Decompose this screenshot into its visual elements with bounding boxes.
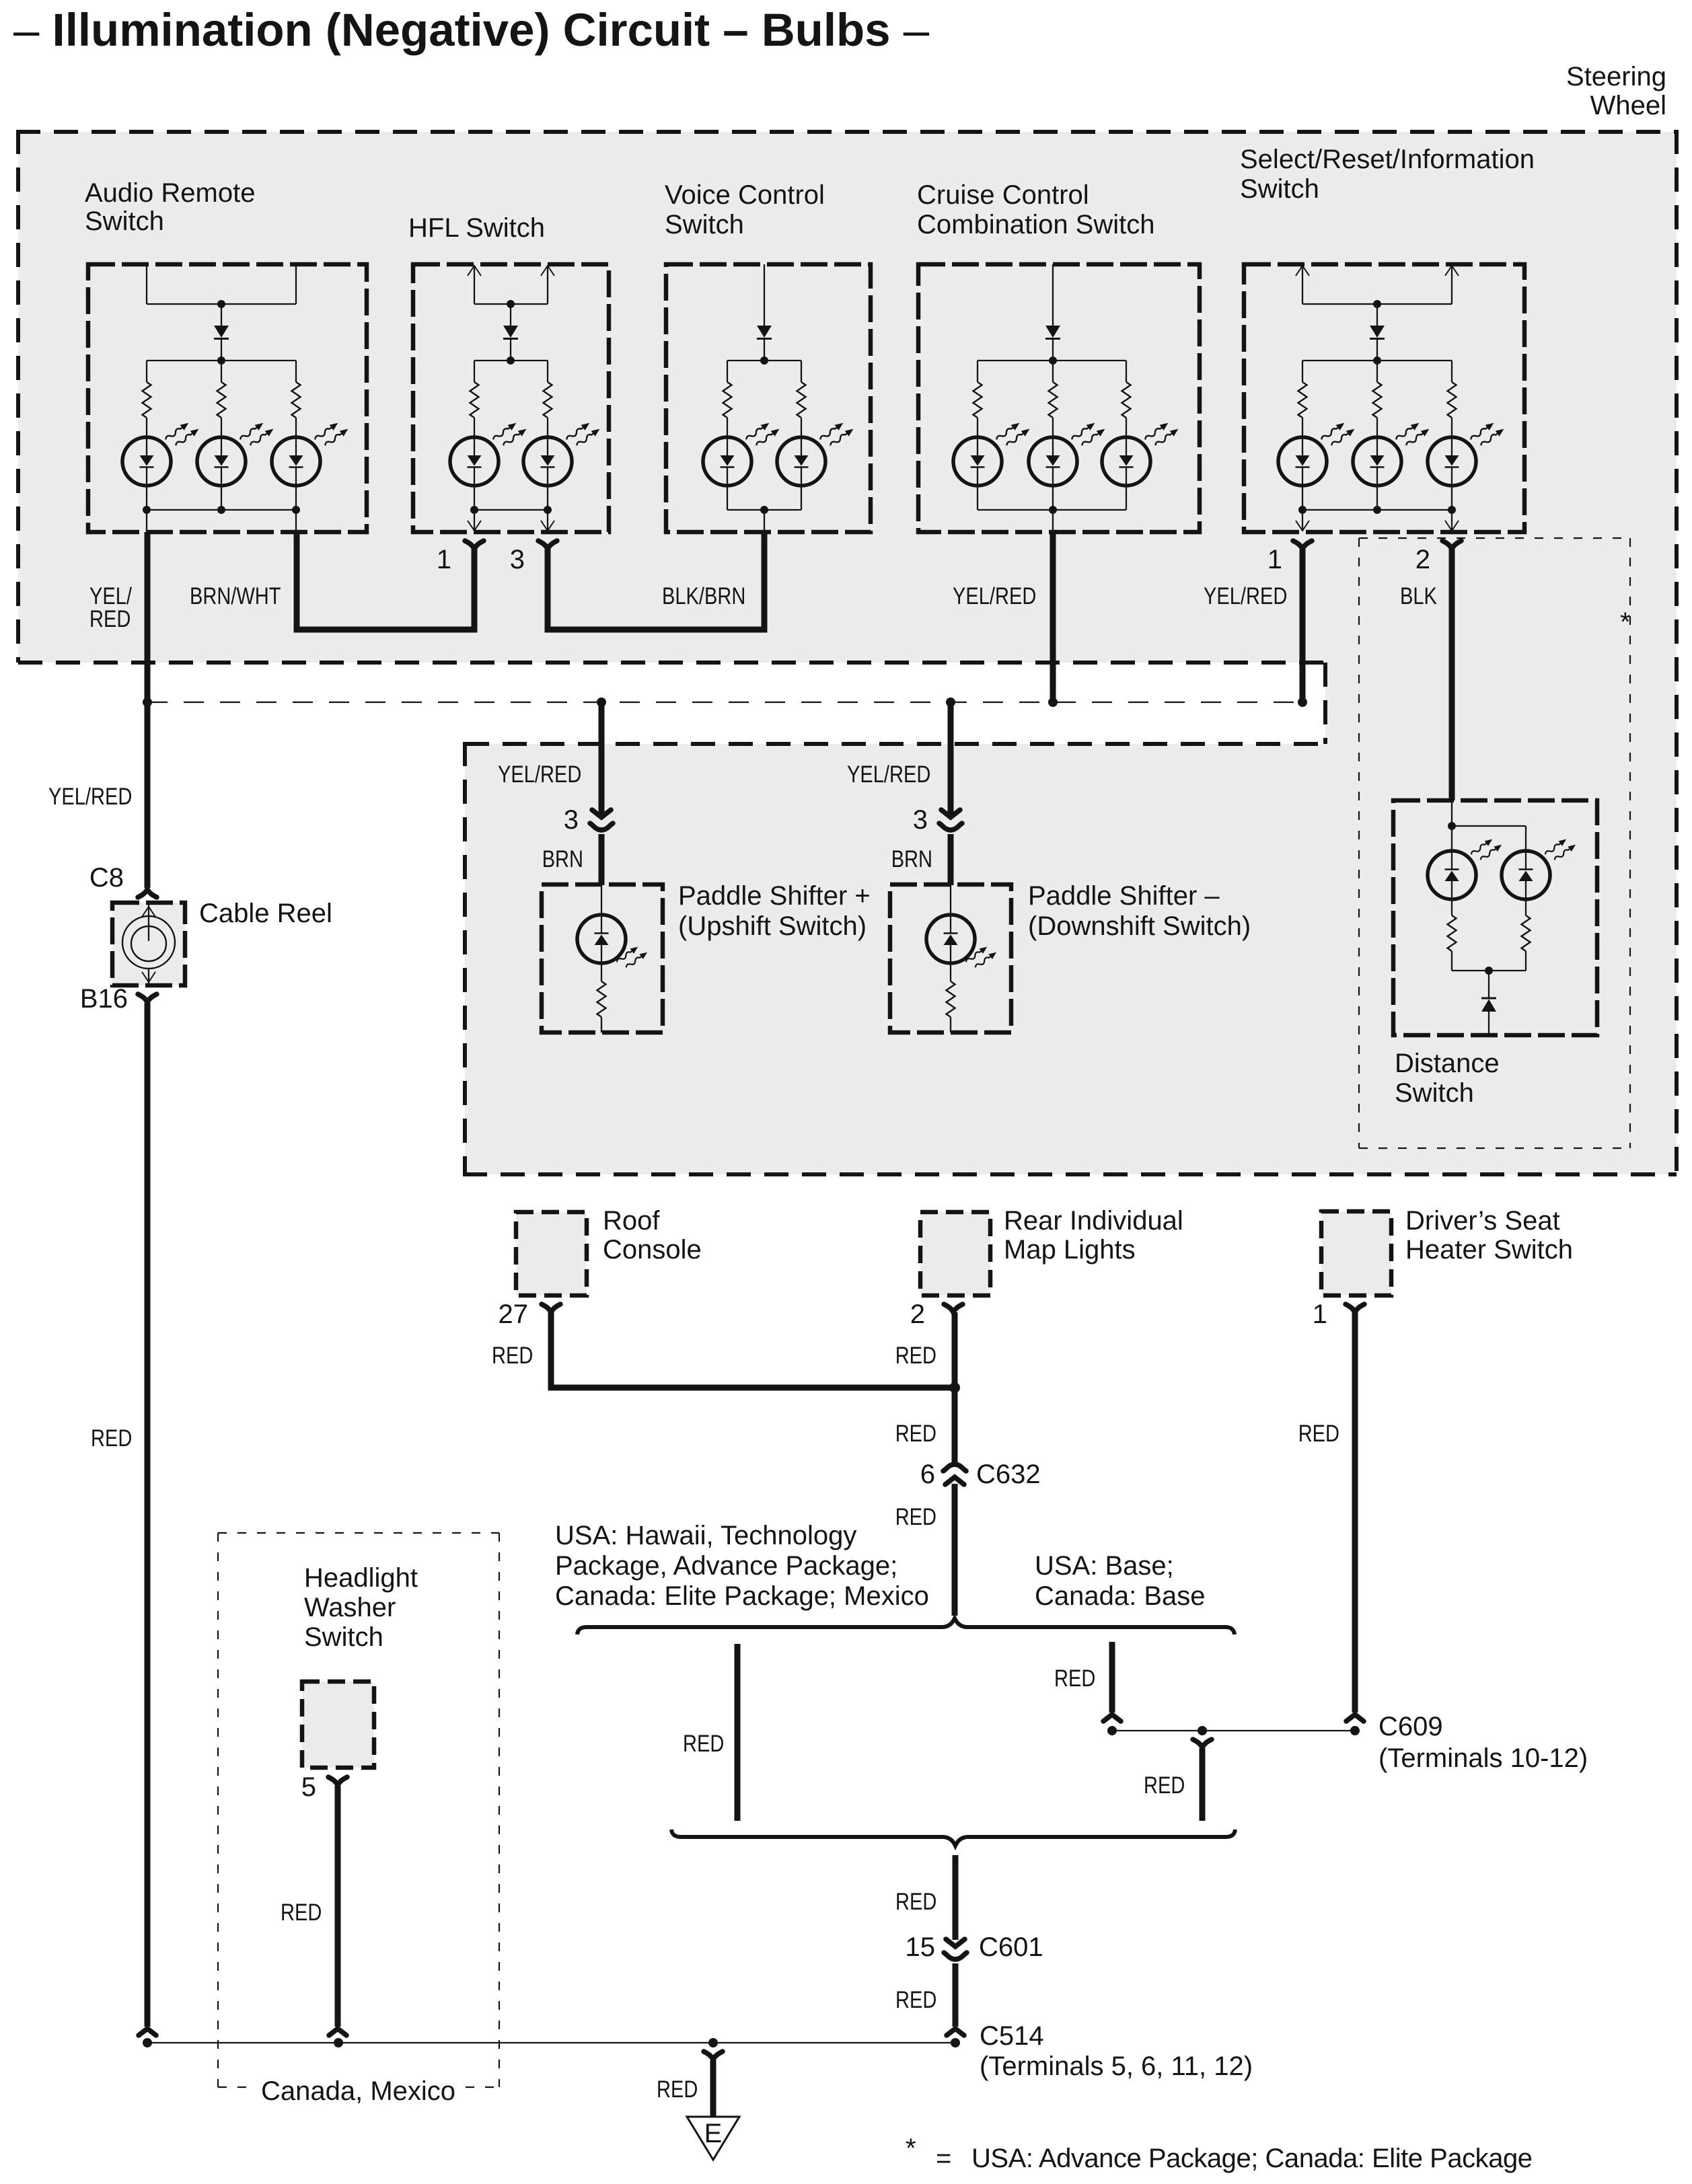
driver seat heater box fill: [1321, 1211, 1391, 1295]
wire YEL/RED to downshift connector: [948, 702, 954, 814]
svg-text:Roof: Roof: [603, 1206, 660, 1236]
node ground bus left: [143, 2038, 152, 2047]
connector C609 left: [1103, 1715, 1121, 1721]
voice control resistor+bulb branch 1: [703, 361, 751, 510]
connector C609 mid: [1193, 1739, 1212, 1747]
svg-text:USA: Base;: USA: Base;: [1035, 1551, 1174, 1581]
C609 bus: [1112, 1730, 1355, 1731]
select/reset resistor+bulb branch 3: [1428, 361, 1476, 510]
node red junction: [949, 1382, 960, 1393]
wire RED below C632: [952, 1484, 958, 1616]
svg-text:C609: C609: [1378, 1712, 1443, 1741]
svg-text:Canada: Base: Canada: Base: [1035, 1581, 1206, 1611]
bulb distance 1: [1428, 851, 1476, 899]
HFL bottom arrow 1: [468, 521, 481, 531]
svg-text:Switch: Switch: [665, 210, 744, 239]
HFL resistor+bulb branch 1: [450, 361, 499, 510]
audio remote bottom bus: [143, 506, 300, 532]
distance switch top node: [1448, 800, 1526, 850]
steering wheel gray area: [18, 132, 1677, 1174]
connector B16: [138, 994, 157, 1002]
downshift resistor: [947, 963, 955, 1032]
svg-text:Switch: Switch: [85, 206, 164, 236]
svg-text:Rear Individual: Rear Individual: [1004, 1206, 1183, 1236]
connector 3 downshift: [939, 810, 962, 830]
svg-text:YEL/RED: YEL/RED: [953, 583, 1036, 609]
label Headlight Washer Switch: [304, 1563, 418, 1652]
wire YEL/RED cruise control: [1050, 532, 1056, 702]
svg-text:BRN: BRN: [891, 846, 932, 872]
HFL Switch box: [413, 264, 609, 532]
wire RED right option branch lower: [1200, 1748, 1206, 1821]
svg-text:Canada, Mexico: Canada, Mexico: [261, 2076, 455, 2106]
HFL top arrow 2: [541, 266, 554, 276]
HFL bottom bus: [470, 506, 552, 529]
wire RED trunk to C632: [952, 1388, 958, 1464]
cruise control bulb rays 1: [994, 418, 1031, 451]
wire BRN upshift: [599, 834, 605, 885]
wire RED headlight washer: [335, 1786, 341, 2027]
label Rear Individual Map Lights: [1004, 1206, 1183, 1265]
bulb upshift: [577, 915, 626, 963]
svg-text:1: 1: [1313, 1300, 1327, 1329]
svg-text:RED: RED: [895, 1987, 936, 2013]
svg-text:Console: Console: [603, 1235, 702, 1265]
svg-text:Switch: Switch: [304, 1622, 383, 1652]
voice control bulb rays 1: [744, 418, 781, 451]
select/reset lower bus: [1302, 338, 1452, 365]
voice control switch internals: [764, 264, 765, 326]
svg-text:YEL/RED: YEL/RED: [48, 784, 132, 810]
audio remote switch internals: [147, 264, 296, 326]
node ground bus washer: [334, 2038, 343, 2047]
select/reset bottom arrow 1: [1296, 521, 1309, 531]
cruise control switch internals: [1052, 264, 1054, 326]
svg-text:RED: RED: [91, 1425, 132, 1452]
Audio Remote Switch box: [88, 264, 367, 532]
diode HFL: [503, 326, 518, 339]
node bus-upshift: [597, 698, 606, 707]
svg-text:B16: B16: [80, 984, 128, 1014]
voice control bottom bus: [727, 506, 801, 532]
connector ground E: [704, 2051, 723, 2060]
connector C632: [943, 1464, 966, 1484]
lower brace: [671, 1830, 1235, 1846]
label USA Base Canada Base: [1035, 1551, 1206, 1611]
roof console box fill: [516, 1212, 587, 1295]
label Select/Reset/Information Switch: [1240, 145, 1535, 204]
select/reset bottom bus: [1298, 506, 1456, 529]
select/reset switch internals: [1302, 267, 1452, 326]
svg-text:USA: Advance Package; Canada:: USA: Advance Package; Canada: Elite Pack…: [971, 2144, 1533, 2173]
svg-text:Paddle Shifter +: Paddle Shifter +: [678, 881, 871, 911]
headlight washer switch box: [302, 1682, 374, 1768]
svg-text:1: 1: [437, 545, 451, 574]
node bus-audio: [143, 698, 152, 707]
HFL top arrow 1: [468, 266, 481, 276]
connector cable reel to bus: [139, 2029, 156, 2035]
svg-text:E: E: [704, 2119, 723, 2148]
svg-text:BLK: BLK: [1400, 583, 1437, 609]
wire BRN downshift: [948, 834, 954, 885]
wire YEL/RED to cable reel: [145, 702, 151, 888]
svg-text:27: 27: [499, 1300, 529, 1329]
svg-text:RED: RED: [683, 1731, 724, 1757]
roof console box: [516, 1212, 587, 1295]
label USA Hawaii Technology Package: [555, 1521, 929, 1611]
wire RED to ground: [710, 2060, 716, 2117]
connector pin27 roof console: [542, 1304, 560, 1312]
label Voice Control Switch: [665, 180, 825, 239]
svg-text:RED: RED: [657, 2076, 698, 2103]
label Paddle Shifter +: [678, 881, 871, 941]
HFL resistor+bulb branch 2: [523, 361, 572, 510]
cruise control lower bus: [978, 338, 1126, 365]
diode distance: [1481, 998, 1496, 1012]
rear individual map lights box: [920, 1212, 990, 1295]
bulb distance 2: [1502, 851, 1550, 899]
svg-text:(Downshift Switch): (Downshift Switch): [1028, 911, 1251, 941]
audio remote resistor+bulb branch 3: [272, 361, 320, 510]
distance resistor 1: [1448, 900, 1457, 971]
audio remote resistor+bulb branch 1: [122, 361, 171, 510]
svg-text:Audio Remote: Audio Remote: [85, 178, 255, 208]
svg-text:3: 3: [564, 805, 579, 835]
svg-text:5: 5: [301, 1772, 316, 1802]
node C609 right: [1350, 1726, 1360, 1735]
svg-text:C514: C514: [980, 2021, 1044, 2051]
upper brace: [577, 1618, 1235, 1634]
wire RED left option branch: [735, 1644, 741, 1821]
svg-text:– Illumination (Negative) Circ: – Illumination (Negative) Circuit – Bulb…: [13, 4, 930, 56]
svg-text:RED: RED: [89, 606, 131, 632]
svg-text:Paddle Shifter –: Paddle Shifter –: [1028, 881, 1220, 911]
audio remote bulb rays 2: [238, 418, 275, 451]
svg-text:Washer: Washer: [304, 1593, 396, 1622]
svg-text:Switch: Switch: [1240, 174, 1319, 204]
headlight washer option box: [218, 1533, 499, 2087]
downshift bulb branch: [950, 885, 951, 915]
audio remote resistor+bulb branch 2: [197, 361, 246, 510]
connector C601: [944, 1939, 967, 1959]
downshift bulb rays: [964, 942, 998, 973]
upshift bulb branch: [601, 885, 602, 915]
wire RED driver seat: [1352, 1312, 1358, 1712]
headlight washer box fill: [302, 1682, 374, 1768]
driver seat heater switch box: [1321, 1211, 1391, 1295]
connector C609 right: [1346, 1715, 1364, 1721]
wire RED map lights: [952, 1312, 958, 1388]
cruise control resistor+bulb branch 2: [1029, 361, 1077, 510]
node C609 mid: [1198, 1726, 1207, 1735]
svg-text:YEL/RED: YEL/RED: [498, 761, 581, 788]
svg-text:RED: RED: [492, 1343, 533, 1369]
svg-text:C601: C601: [979, 1932, 1043, 1962]
select/reset bulb rays 3: [1469, 418, 1506, 451]
cable reel coil: [122, 903, 175, 983]
diode audio remote: [214, 326, 229, 339]
rear map lights box fill: [920, 1212, 990, 1295]
audio remote lower bus: [147, 338, 296, 365]
label Cruise Control Combination Switch: [917, 180, 1155, 239]
svg-text:=: =: [936, 2144, 951, 2173]
svg-text:Cable Reel: Cable Reel: [199, 899, 332, 928]
connector 3 upshift: [590, 810, 613, 830]
svg-text:15: 15: [906, 1932, 936, 1962]
distance resistor 2: [1522, 900, 1531, 971]
upshift bulb rays: [615, 942, 649, 973]
HFL switch internals: [474, 267, 548, 326]
svg-text:Heater Switch: Heater Switch: [1405, 1235, 1573, 1265]
diode cruise control: [1045, 326, 1060, 339]
node ground bus E: [708, 2038, 718, 2047]
label Distance Switch: [1395, 1049, 1500, 1108]
cruise control bottom bus: [978, 506, 1126, 532]
svg-text:RED: RED: [895, 1889, 936, 1915]
svg-text:BLK/BRN: BLK/BRN: [662, 583, 745, 609]
svg-text:*: *: [1620, 607, 1631, 637]
node bus-select: [1298, 698, 1307, 707]
distance bulb rays 1: [1469, 834, 1504, 865]
select/reset top arrow 2: [1445, 266, 1459, 276]
illumination bus dashed: [147, 702, 1302, 703]
voice control bulb rays 2: [818, 418, 855, 451]
svg-text:Package, Advance Package;: Package, Advance Package;: [555, 1551, 897, 1581]
wire YEL/RED audio remote: [145, 532, 151, 702]
svg-text:RED: RED: [895, 1421, 936, 1447]
wire RED cable reel down: [145, 1003, 151, 2027]
distance bulb rays 2: [1543, 834, 1578, 865]
wire RED to C601: [953, 1855, 959, 1940]
voice control lower bus: [727, 338, 801, 365]
node bus-cruise: [1048, 698, 1058, 707]
cruise control bulb rays 3: [1143, 418, 1180, 451]
svg-text:Driver’s Seat: Driver’s Seat: [1405, 1206, 1560, 1236]
connector headlight washer to bus: [329, 2029, 346, 2035]
svg-text:Voice Control: Voice Control: [665, 180, 825, 210]
Select/Reset/Information Switch box: [1244, 264, 1524, 532]
svg-text:Canada: Elite Package; Mexico: Canada: Elite Package; Mexico: [555, 1581, 929, 1611]
svg-text:3: 3: [510, 545, 525, 574]
wire RED roof console: [551, 1312, 950, 1388]
svg-text:Map Lights: Map Lights: [1004, 1235, 1136, 1265]
svg-text:3: 3: [913, 805, 928, 835]
select/reset bottom arrow 2: [1445, 521, 1459, 531]
connector C514: [947, 2029, 964, 2035]
svg-text:2: 2: [1415, 545, 1430, 574]
footnote asterisk legend: [906, 2134, 1533, 2173]
svg-text:BRN/WHT: BRN/WHT: [190, 583, 281, 609]
label Steering Wheel: [1566, 62, 1666, 120]
svg-text:Select/Reset/Information: Select/Reset/Information: [1240, 145, 1535, 174]
audio remote bulb rays 3: [313, 418, 350, 451]
node bus-downshift: [946, 698, 955, 707]
label YEL/RED audio: [89, 583, 132, 632]
svg-text:6: 6: [920, 1460, 935, 1489]
svg-text:2: 2: [910, 1300, 925, 1329]
select/reset bulb rays 1: [1319, 418, 1356, 451]
audio remote bulb rays 1: [163, 418, 200, 451]
svg-text:RED: RED: [1054, 1665, 1095, 1692]
cable reel box fill: [112, 903, 185, 985]
paddle shifter + box: [542, 884, 663, 1032]
wire BLK select pin2 to distance switch: [1449, 546, 1455, 800]
svg-text:Headlight: Headlight: [304, 1563, 418, 1593]
svg-text:Switch: Switch: [1395, 1078, 1474, 1108]
svg-text:USA: Hawaii, Technology: USA: Hawaii, Technology: [555, 1521, 856, 1550]
cruise control resistor+bulb branch 1: [953, 361, 1002, 510]
HFL bulb rays 1: [491, 418, 528, 451]
svg-text:YEL/RED: YEL/RED: [1204, 583, 1287, 609]
svg-text:RED: RED: [1144, 1772, 1185, 1799]
svg-text:1: 1: [1267, 545, 1282, 574]
node C609 left: [1107, 1726, 1117, 1735]
HFL lower bus: [474, 338, 548, 365]
connector pin1 select/reset: [1293, 541, 1312, 549]
svg-text:RED: RED: [895, 1504, 936, 1530]
select/reset resistor+bulb branch 1: [1278, 361, 1327, 510]
svg-text:*: *: [906, 2134, 916, 2163]
diode voice control: [757, 326, 772, 339]
svg-text:Combination Switch: Combination Switch: [917, 210, 1155, 239]
diode select/reset: [1370, 326, 1385, 339]
HFL bottom arrow 2: [541, 521, 554, 531]
node C514: [951, 2038, 960, 2047]
wire YEL/RED select pin1: [1300, 546, 1306, 702]
distance switch box: [1393, 800, 1597, 1035]
label C609: [1378, 1712, 1588, 1773]
steering wheel box border: [16, 130, 1679, 1174]
connector pin3 HFL: [538, 541, 557, 549]
voice control resistor+bulb branch 2: [777, 361, 825, 510]
Cruise Control Combination Switch box: [918, 264, 1200, 532]
cable reel box: [112, 903, 185, 985]
svg-text:(Terminals 5, 6, 11, 12): (Terminals 5, 6, 11, 12): [980, 2051, 1253, 2081]
connector pin5 headlight washer: [328, 1777, 347, 1785]
svg-text:RED: RED: [1298, 1421, 1339, 1447]
connector pin1 HFL: [465, 541, 484, 549]
select/reset bulb rays 2: [1394, 418, 1431, 451]
svg-text:YEL/RED: YEL/RED: [847, 761, 930, 788]
svg-text:Wheel: Wheel: [1590, 91, 1666, 120]
select/reset resistor+bulb branch 2: [1353, 361, 1401, 510]
connector pin1 driver seat: [1346, 1304, 1364, 1312]
upshift resistor: [597, 963, 606, 1032]
label C514: [980, 2021, 1253, 2081]
label Audio Remote Switch: [85, 178, 255, 236]
wire RED below C601: [953, 1963, 959, 2027]
svg-text:RED: RED: [895, 1343, 936, 1369]
paddle shifter - box: [890, 884, 1011, 1032]
svg-text:BRN: BRN: [542, 846, 583, 872]
svg-text:C632: C632: [976, 1460, 1041, 1489]
svg-text:RED: RED: [281, 1899, 322, 1926]
svg-text:C8: C8: [89, 863, 124, 893]
select/reset top arrow 1: [1296, 266, 1309, 276]
ground bus C514: [147, 2042, 955, 2043]
cruise control bulb rays 2: [1070, 418, 1107, 451]
label Roof Console: [603, 1206, 702, 1265]
asterisk option box: [1359, 538, 1630, 1148]
distance diode tail: [1488, 1012, 1489, 1035]
wire RED right option branch upper: [1109, 1642, 1115, 1712]
svg-text:(Upshift Switch): (Upshift Switch): [678, 911, 867, 941]
wire BLK/BRN HFL pin3 to voice control: [548, 532, 764, 630]
bulb downshift: [926, 915, 975, 963]
label Paddle Shifter -: [1028, 881, 1251, 941]
HFL bulb rays 2: [564, 418, 601, 451]
svg-text:Distance: Distance: [1395, 1049, 1500, 1078]
wire YEL/RED to upshift connector: [599, 702, 605, 814]
svg-text:Cruise Control: Cruise Control: [917, 180, 1089, 210]
connector pin2 select/reset: [1442, 541, 1461, 549]
svg-text:(Terminals 10-12): (Terminals 10-12): [1378, 1743, 1588, 1773]
Voice Control Switch box: [666, 264, 871, 532]
wire BRN/WHT audio to HFL pin1: [297, 532, 474, 630]
cruise control resistor+bulb branch 3: [1102, 361, 1150, 510]
connector C8: [138, 889, 157, 897]
connector pin2 map lights: [944, 1304, 963, 1312]
svg-text:HFL Switch: HFL Switch: [408, 213, 545, 243]
distance bottom bus: [1452, 967, 1526, 998]
label Driver Seat Heater Switch: [1405, 1206, 1573, 1265]
ground symbol E: [687, 2117, 739, 2160]
svg-text:Steering: Steering: [1566, 62, 1666, 91]
